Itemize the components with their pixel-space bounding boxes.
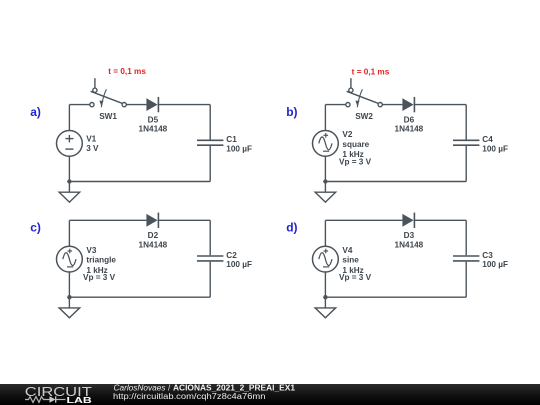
svg-text:triangle: triangle bbox=[86, 256, 116, 265]
svg-text:d): d) bbox=[286, 221, 297, 235]
svg-text:V3: V3 bbox=[86, 246, 96, 255]
svg-text:SW1: SW1 bbox=[99, 112, 117, 121]
svg-text:sine: sine bbox=[342, 256, 359, 265]
svg-text:square: square bbox=[342, 140, 369, 149]
svg-text:D5: D5 bbox=[148, 115, 159, 124]
svg-text:1N4148: 1N4148 bbox=[395, 240, 424, 249]
svg-text:a): a) bbox=[30, 105, 41, 119]
svg-text:100 µF: 100 µF bbox=[482, 260, 508, 269]
svg-text:D2: D2 bbox=[148, 231, 159, 240]
svg-text:100 µF: 100 µF bbox=[482, 144, 508, 153]
svg-text:SW2: SW2 bbox=[355, 112, 373, 121]
svg-text:t = 0,1 ms: t = 0,1 ms bbox=[352, 67, 390, 76]
svg-text:C4: C4 bbox=[482, 135, 493, 144]
svg-text:LAB: LAB bbox=[67, 396, 92, 405]
svg-text:Vp = 3 V: Vp = 3 V bbox=[83, 273, 116, 282]
svg-text:C3: C3 bbox=[482, 251, 493, 260]
svg-text:http://circuitlab.com/cqh7z8c4: http://circuitlab.com/cqh7z8c4a76mn bbox=[113, 392, 266, 401]
svg-text:100 µF: 100 µF bbox=[226, 144, 252, 153]
svg-text:V4: V4 bbox=[342, 246, 352, 255]
svg-text:D6: D6 bbox=[404, 115, 415, 124]
svg-text:C2: C2 bbox=[226, 251, 237, 260]
svg-text:3 V: 3 V bbox=[86, 144, 99, 153]
svg-text:1N4148: 1N4148 bbox=[139, 240, 168, 249]
svg-text:t = 0,1 ms: t = 0,1 ms bbox=[108, 67, 146, 76]
svg-text:C1: C1 bbox=[226, 135, 237, 144]
svg-text:Vp = 3 V: Vp = 3 V bbox=[339, 273, 372, 282]
svg-text:D3: D3 bbox=[404, 231, 415, 240]
svg-text:1N4148: 1N4148 bbox=[139, 125, 168, 134]
svg-text:100 µF: 100 µF bbox=[226, 260, 252, 269]
svg-text:Vp = 3 V: Vp = 3 V bbox=[339, 157, 372, 166]
svg-text:b): b) bbox=[286, 105, 297, 119]
svg-text:c): c) bbox=[30, 221, 41, 235]
svg-text:V1: V1 bbox=[86, 134, 96, 143]
svg-text:V2: V2 bbox=[342, 130, 352, 139]
svg-text:1N4148: 1N4148 bbox=[395, 125, 424, 134]
